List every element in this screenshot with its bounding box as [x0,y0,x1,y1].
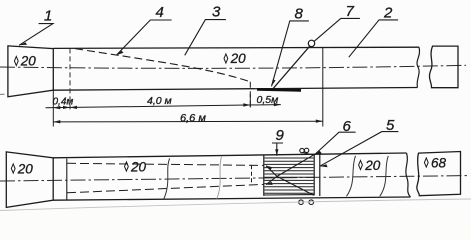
svg-text:20: 20 [230,51,247,66]
svg-text:7: 7 [346,3,355,20]
grain curve 4 [380,156,389,196]
break line (bottom figure) [406,153,411,197]
stray mark at left edge [0,93,5,95]
extension tick for 0,5m left [249,94,251,108]
log body bottom edge (bottom figure) [53,197,410,200]
overall dimension line 6,6 m [53,120,323,123]
faint page edge artifact along bottom [0,199,471,211]
diameter mark mid log (bottom) [125,162,129,171]
dashed extension at 0.4m [69,48,71,110]
diameter mark end piece 68 [424,158,428,167]
svg-text:20: 20 [20,54,37,69]
svg-text:8: 8 [295,6,304,23]
diameter mark in butt (top) [14,56,18,65]
centerline (top log axis) [0,65,466,68]
svg-text:68: 68 [431,155,447,170]
grain curve 3 [347,156,356,197]
section boundary line right of block [319,155,321,197]
grain curve 1 [164,158,170,199]
shield block right edge [313,155,315,196]
rope over top pulleys [302,152,313,155]
svg-text:6,6 м: 6,6 м [180,112,206,124]
bold cut mark (element 8) [257,88,301,92]
end piece (bottom figure) [417,152,461,196]
arrow to upper dashed end [266,166,277,177]
svg-text:20: 20 [364,158,381,173]
arrow to lower dashed end [266,176,277,184]
svg-text:20: 20 [130,159,147,174]
log body bottom edge [53,88,417,91]
hatch lines inside block [265,158,314,193]
svg-text:20: 20 [17,161,34,176]
second divider line [66,159,68,200]
svg-text:1: 1 [44,8,52,25]
diameter mark right section (bottom) [359,160,363,169]
svg-text:4,0 м: 4,0 м [147,95,172,107]
svg-text:4: 4 [156,4,164,21]
centerline (bottom log axis) [0,176,468,181]
shield block left edge [263,155,265,196]
end piece (broken-off tip, top figure) [429,46,458,88]
fan lines from apex [277,155,314,177]
butt swell trapezoid (bottom) [6,152,53,208]
svg-text:2: 2 [383,5,393,22]
svg-text:9: 9 [276,127,285,144]
dashed core end vertical [251,165,253,184]
pulley circles top [300,148,304,152]
svg-text:0,5м: 0,5м [257,94,279,106]
log body top edge [53,47,419,48]
svg-text:0,4м: 0,4м [53,96,74,107]
break line at right of main log [417,47,420,87]
rope from pulley to cut [273,46,310,88]
log body top edge (bottom figure) [53,153,406,158]
pulley circles bottom [299,200,304,205]
dashed drop to dimension line [249,82,251,107]
shield block bottom edge [264,194,314,196]
arrows on upper dimension line [53,106,60,109]
dashed inner core upper [67,163,264,165]
dimension line 0,4m / 4,0m / 0,5m [46,105,281,108]
butt swell trapezoid (top) [8,46,53,97]
extension line right (through log) [322,47,324,126]
grain curve 2 (faint) [217,157,222,199]
dashed inner core lower [67,184,264,192]
diameter mark mid log (top) [224,54,228,63]
taper line (element 4, dashed diagonal) [75,49,250,82]
pulley circle (element 7) [308,40,314,46]
diameter mark in butt (bottom) [11,164,15,173]
svg-text:3: 3 [212,4,221,21]
extension line left (below trapezoid edge) [52,90,54,126]
